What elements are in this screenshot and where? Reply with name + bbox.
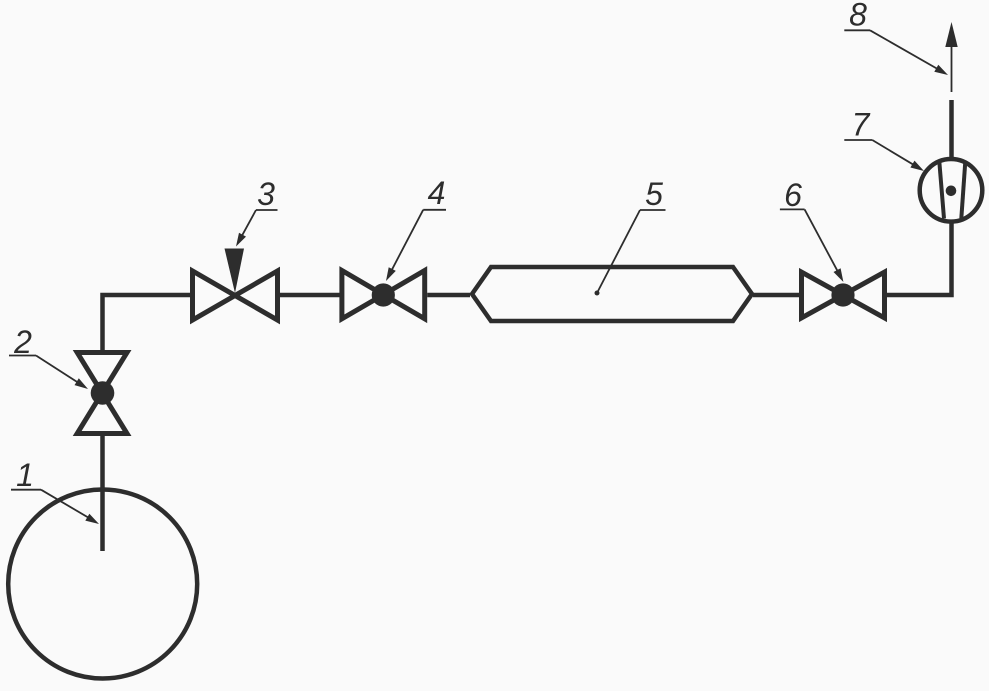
label 5 leader (595, 210, 666, 296)
label 7 leader (844, 140, 924, 171)
valve 4 (342, 271, 425, 319)
svg-text:7: 7 (852, 107, 871, 143)
labels with leader lines (9, 30, 948, 524)
vent arrow 8 (945, 22, 957, 92)
svg-text:8: 8 (849, 0, 867, 33)
gas cylinder 1 (8, 490, 197, 679)
svg-text:6: 6 (784, 177, 802, 213)
valve 6 (802, 272, 885, 318)
vessel 5 (elongated hexagon) (472, 267, 752, 321)
svg-text:3: 3 (257, 176, 275, 212)
pipe: valve 2 up and corner to valve 3 (103, 295, 191, 350)
svg-text:1: 1 (16, 457, 34, 493)
pipe: valve 4 to vessel 5 (427, 293, 470, 298)
svg-text:5: 5 (645, 176, 663, 212)
rotameter 7 (920, 159, 983, 222)
pipe: valve 3 to valve 4 (280, 293, 340, 298)
label 2 leader (9, 356, 88, 390)
valve 2 (77, 353, 127, 434)
label 3 leader (236, 210, 278, 247)
pipe: vessel 5 to valve 6 (753, 293, 799, 298)
pipe: valve 6 to rotameter riser (887, 222, 952, 295)
label 1 leader (11, 490, 99, 524)
label 4 leader (386, 210, 446, 281)
svg-text:4: 4 (428, 175, 446, 211)
label 6 leader (780, 209, 844, 282)
valve 3 (193, 249, 278, 321)
pipe: rotameter to vent (949, 100, 954, 159)
pipe: cylinder to valve 2 (100, 436, 105, 551)
label 8 leader (844, 30, 948, 75)
svg-text:2: 2 (13, 324, 32, 360)
